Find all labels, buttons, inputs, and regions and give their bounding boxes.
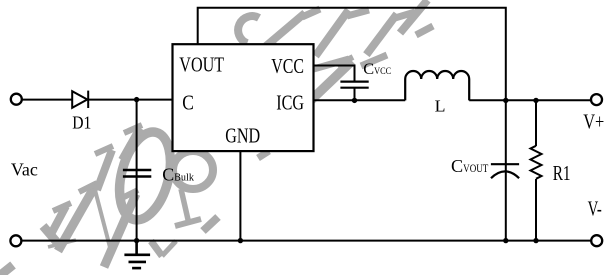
terminal V- <box>591 235 602 246</box>
svg-text:ICG: ICG <box>276 90 304 114</box>
svg-text:VCC: VCC <box>271 54 304 78</box>
wire VCC pin to Cvcc <box>313 66 355 82</box>
resistor R1 <box>531 146 542 179</box>
node junction bottom Cvout <box>503 238 508 243</box>
node junction Cvcc/ICG <box>352 98 357 103</box>
ground <box>124 241 150 269</box>
node junction bottom GND pin <box>238 238 243 243</box>
node junction D1/C_Bulk <box>134 97 139 102</box>
wire R1 branch bottom <box>535 179 537 241</box>
wire output node vertical <box>505 100 507 240</box>
capacitor C_VCC <box>340 82 368 88</box>
wire VOUT top loop <box>198 8 506 101</box>
capacitor C_Bulk <box>123 170 151 177</box>
terminal V+ <box>591 94 602 105</box>
svg-text:V-: V- <box>588 197 602 221</box>
terminal input top <box>11 94 22 105</box>
wire input from terminal to diode <box>22 99 72 101</box>
node junction bottom R1 <box>533 238 538 243</box>
IC U1 box <box>173 44 314 151</box>
node junction R1 top <box>533 98 538 103</box>
svg-text:VOUT: VOUT <box>179 53 224 77</box>
diode D1 <box>72 91 88 108</box>
wire diode to IC C pin <box>88 99 172 101</box>
capacitor C_VOUT <box>491 164 519 178</box>
inductor L <box>405 71 469 100</box>
node junction bottom C_Bulk <box>134 238 139 243</box>
svg-text:Vac: Vac <box>11 159 38 179</box>
svg-text:L: L <box>435 96 446 115</box>
svg-text:GND: GND <box>225 123 260 147</box>
node junction L/Cvout <box>503 98 508 103</box>
terminal input bottom <box>10 235 21 246</box>
watermark <box>0 0 433 275</box>
wire R1 branch top <box>535 100 537 146</box>
svg-text:D1: D1 <box>72 113 91 133</box>
wire GND pin <box>239 151 241 241</box>
wire C_Bulk branch vertical <box>136 100 138 241</box>
svg-text:C: C <box>182 91 194 115</box>
svg-text:V+: V+ <box>583 109 604 133</box>
wire Cvcc bottom to ICG wire <box>354 88 356 101</box>
wire inductor to V+ terminal <box>469 99 591 101</box>
wire ICG to inductor <box>313 99 405 101</box>
wire bottom rail <box>22 240 592 242</box>
svg-text:R1: R1 <box>553 161 571 185</box>
